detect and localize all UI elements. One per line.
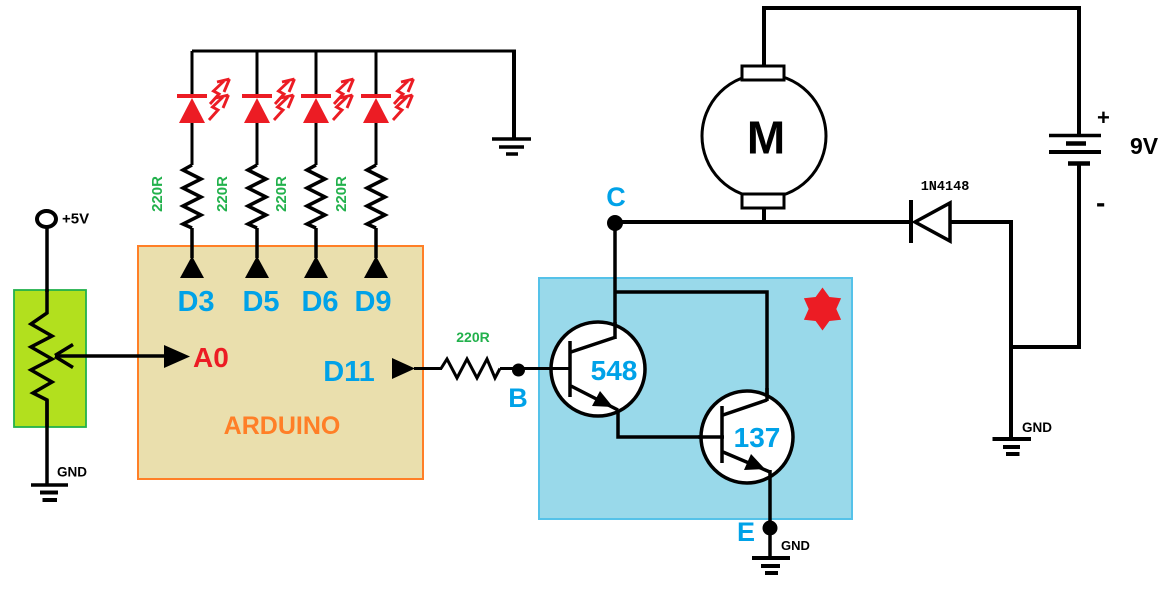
- svg-text:220R: 220R: [214, 176, 231, 212]
- pin D9: [354, 256, 391, 318]
- Q1 base bar: [568, 341, 572, 397]
- svg-text:D3: D3: [177, 286, 214, 318]
- battery BT1 9V: [1049, 105, 1159, 218]
- resistor 220R (D9): [333, 165, 385, 258]
- svg-text:+: +: [1097, 105, 1110, 130]
- svg-text:GND: GND: [781, 538, 810, 553]
- wire: LED anode to resistor: [191, 123, 194, 165]
- wire: potentiometer to ground: [45, 400, 49, 485]
- LED cathode bar: [242, 94, 272, 98]
- battery plate short (cell 1 -): [1066, 141, 1086, 146]
- wire: Q1 emitter to Q2 base: [618, 410, 723, 437]
- LED body triangle: [303, 98, 329, 123]
- wire: resistor to pin: [314, 228, 318, 258]
- svg-text:220R: 220R: [456, 329, 489, 345]
- diode triangle: [915, 203, 950, 241]
- light emission arrows: [274, 79, 295, 120]
- Q1 collector stub: [613, 322, 617, 339]
- diode D1 1N4148: [911, 180, 969, 243]
- node E junction dot: [763, 521, 778, 536]
- pin D11: [323, 356, 415, 388]
- svg-text:9V: 9V: [1130, 133, 1159, 159]
- wire: LED anode to resistor: [256, 123, 259, 165]
- wire: node E to ground: [768, 528, 772, 558]
- wire: +5V to potentiometer: [45, 227, 49, 292]
- ground (potentiometer): [31, 465, 87, 501]
- Q1 emitter line: [571, 386, 618, 410]
- node B junction dot: [512, 364, 525, 377]
- svg-text:A0: A0: [193, 342, 229, 373]
- potentiometer body box: [14, 290, 86, 427]
- LED cathode bar: [361, 94, 391, 98]
- svg-text:GND: GND: [1022, 420, 1052, 435]
- LED branch D5: [242, 51, 295, 165]
- potentiometer RV1: [14, 289, 86, 427]
- wire: collector branch to Q2 (top): [615, 292, 767, 400]
- wire: Q2 emitter to node E: [768, 470, 772, 528]
- LED branch D6: [301, 51, 354, 165]
- resistor 220R (D6): [273, 165, 325, 258]
- LED body triangle: [244, 98, 270, 123]
- svg-text:ARDUINO: ARDUINO: [224, 412, 341, 440]
- wire: resistor to pin: [255, 228, 259, 258]
- LED body triangle: [363, 98, 389, 123]
- potentiometer resistive element: [31, 289, 52, 427]
- Q1 collector line: [571, 337, 616, 352]
- wire: resistor to pin: [374, 228, 378, 258]
- wire: D11 to resistor: [414, 367, 442, 370]
- svg-text:M: M: [747, 112, 785, 164]
- Q2 collector stub: [765, 388, 769, 401]
- svg-text:220R: 220R: [273, 176, 290, 212]
- wire: motor top rail to battery: [764, 8, 1079, 134]
- wire: pot wiper to A0: [55, 345, 165, 368]
- svg-text:1N4148: 1N4148: [921, 180, 970, 195]
- pin A0: [164, 342, 229, 373]
- transistor Q1 548: [546, 322, 645, 416]
- ground (emitter): [752, 538, 810, 573]
- node E: [737, 517, 778, 547]
- transistor Q2 137: [698, 388, 793, 483]
- +5V supply: [37, 211, 89, 228]
- svg-text:C: C: [606, 182, 626, 212]
- battery plate long (cell 2 +): [1049, 150, 1101, 154]
- wire: LED common cathode rail: [192, 50, 516, 53]
- LED cathode bar: [177, 94, 207, 98]
- node C: [606, 182, 626, 231]
- svg-text:-: -: [1096, 187, 1105, 218]
- pin D5: [242, 256, 279, 318]
- Q2 emitter line: [723, 452, 770, 472]
- wire: motor bottom to node C rail: [762, 208, 766, 222]
- darlington driver box: [539, 278, 852, 519]
- LED branch D3: [177, 51, 230, 165]
- svg-text:D9: D9: [354, 286, 391, 318]
- battery plate short (cell 2 -): [1068, 161, 1090, 166]
- wire: node C to diode: [614, 220, 912, 224]
- motor M1: [702, 66, 826, 208]
- Q2 base bar: [720, 406, 724, 463]
- light emission arrows: [393, 79, 414, 120]
- svg-text:GND: GND: [57, 465, 87, 480]
- resistor 220R (D5): [214, 165, 266, 258]
- ground (LED rail): [492, 139, 531, 154]
- light emission arrows: [209, 79, 230, 120]
- motor bottom terminal: [742, 194, 784, 208]
- Q2 body circle: [701, 391, 793, 483]
- Q1 base lead: [546, 367, 571, 370]
- arduino board box: [138, 246, 423, 479]
- battery plate long (cell 1 +): [1049, 134, 1101, 138]
- pin D3: [177, 256, 214, 318]
- Q1 body circle: [551, 322, 645, 416]
- svg-text:B: B: [508, 383, 528, 413]
- svg-text:D6: D6: [301, 286, 338, 318]
- Q2 emitter arrow: [744, 454, 765, 470]
- node B: [508, 364, 528, 414]
- wire: rail to LED cathode: [191, 51, 194, 96]
- svg-text:220R: 220R: [149, 176, 166, 212]
- wire: battery negative down: [1011, 165, 1079, 347]
- Q2 collector line: [723, 400, 767, 415]
- LED cathode bar: [301, 94, 331, 98]
- wire: node C down to Q1 collector: [613, 222, 617, 338]
- svg-text:D11: D11: [323, 356, 375, 388]
- wire: motor top: [762, 6, 766, 66]
- Q2 base lead: [698, 435, 724, 439]
- light emission arrows: [333, 79, 354, 120]
- wire: diode to battery negative corner: [950, 222, 1011, 438]
- svg-text:548: 548: [591, 355, 638, 386]
- diode cathode bar: [909, 200, 913, 243]
- resistor 220R (base): [441, 329, 500, 378]
- svg-text:D5: D5: [242, 286, 279, 318]
- wire: LED anode to resistor: [315, 123, 318, 165]
- wire: LED anode to resistor: [375, 123, 378, 165]
- Q1 emitter arrow: [592, 391, 613, 407]
- svg-text:137: 137: [734, 422, 781, 453]
- wire: resistor to pin: [190, 228, 194, 258]
- wire: resistor to node B to Q1 base: [500, 367, 571, 370]
- svg-text:+5V: +5V: [62, 211, 89, 228]
- wire: rail drop to ground: [512, 50, 516, 140]
- ground (battery): [993, 420, 1053, 454]
- resistor 220R (D3): [149, 165, 201, 258]
- motor body circle: [702, 74, 826, 198]
- wire: rail to LED cathode: [256, 51, 259, 96]
- svg-text:220R: 220R: [333, 176, 350, 212]
- wire: rail to LED cathode: [375, 51, 378, 96]
- wire: rail to LED cathode: [315, 51, 318, 96]
- star marker: [804, 288, 841, 331]
- pin D6: [301, 256, 338, 318]
- LED branch D9: [361, 51, 414, 165]
- svg-text:E: E: [737, 517, 755, 547]
- motor top terminal: [742, 66, 784, 80]
- LED body triangle: [179, 98, 205, 123]
- node C junction dot: [607, 215, 623, 231]
